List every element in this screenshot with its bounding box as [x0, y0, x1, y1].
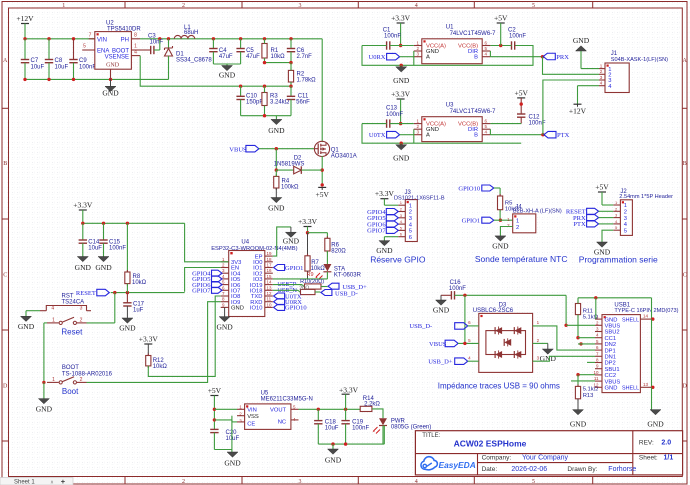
svg-text:5: 5 [83, 44, 86, 50]
svg-text:10: 10 [267, 302, 273, 307]
svg-text:0805G (Green): 0805G (Green) [391, 425, 431, 431]
svg-text:+3.3V: +3.3V [375, 189, 395, 198]
svg-text:3: 3 [409, 216, 412, 222]
svg-text:56nF: 56nF [296, 100, 310, 106]
svg-text:GND: GND [231, 306, 244, 312]
svg-text:GPIO10: GPIO10 [285, 305, 307, 312]
svg-text:GND: GND [283, 237, 300, 246]
svg-text:ME6211C33M5G-N: ME6211C33M5G-N [261, 396, 313, 402]
svg-text:VSS: VSS [247, 414, 259, 420]
svg-text:+3.3V: +3.3V [391, 90, 411, 99]
svg-text:3.24kΩ: 3.24kΩ [270, 100, 290, 106]
svg-text:ACW02 ESPHome: ACW02 ESPHome [454, 439, 527, 449]
svg-text:2.0: 2.0 [661, 440, 671, 447]
svg-text:100nF: 100nF [449, 286, 466, 292]
svg-text:A: A [3, 58, 8, 64]
svg-text:Programmation serie: Programmation serie [579, 255, 658, 265]
svg-text:SBU2: SBU2 [605, 330, 620, 336]
svg-text:R12: R12 [153, 358, 165, 364]
svg-text:Date:: Date: [482, 466, 498, 473]
svg-text:VOUT: VOUT [270, 408, 287, 414]
svg-text:USBLC6-2SC6: USBLC6-2SC6 [473, 308, 514, 314]
svg-text:VBUS: VBUS [605, 379, 621, 385]
svg-text:C8: C8 [55, 58, 63, 64]
svg-text:2: 2 [624, 210, 627, 216]
svg-text:100nF: 100nF [384, 34, 401, 40]
svg-text:PRX: PRX [556, 54, 569, 61]
svg-text:R9: R9 [307, 272, 314, 278]
svg-text:GND: GND [36, 405, 53, 414]
svg-text:1uF: 1uF [133, 308, 144, 314]
svg-text:R11: R11 [583, 308, 593, 314]
svg-text:+5V: +5V [315, 190, 329, 199]
svg-text:USB_D-: USB_D- [335, 290, 358, 297]
svg-text:GND: GND [268, 126, 285, 135]
svg-text:10: 10 [593, 370, 599, 375]
svg-text:GND: GND [325, 456, 342, 465]
svg-text:GND: GND [216, 323, 233, 332]
svg-text:10kΩ: 10kΩ [311, 266, 326, 272]
svg-text:3: 3 [299, 479, 302, 485]
svg-text:R13: R13 [583, 393, 594, 399]
svg-text:DN2: DN2 [605, 342, 617, 348]
svg-text:GND: GND [433, 306, 450, 315]
svg-text:GND: GND [95, 263, 112, 272]
svg-text:1: 1 [62, 3, 65, 9]
svg-text:2: 2 [409, 210, 412, 216]
svg-text:11: 11 [267, 297, 272, 302]
svg-text:10uF: 10uF [88, 246, 102, 252]
svg-text:CC2: CC2 [605, 373, 617, 379]
svg-text:+3.3V: +3.3V [391, 14, 411, 23]
svg-text:2: 2 [182, 3, 185, 9]
svg-text:Reset: Reset [61, 328, 83, 337]
svg-text:GND: GND [106, 63, 120, 69]
svg-text:C: C [683, 273, 687, 279]
svg-text:1/1: 1/1 [664, 454, 674, 461]
svg-text:GND: GND [492, 242, 509, 251]
svg-text:C13: C13 [386, 106, 398, 112]
svg-text:2.2kΩ: 2.2kΩ [364, 401, 380, 407]
svg-text:R10(20Ω): R10(20Ω) [300, 279, 324, 285]
svg-text:3: 3 [80, 306, 83, 312]
svg-text:+5V: +5V [494, 14, 508, 23]
svg-text:GND: GND [219, 71, 236, 80]
svg-text:A: A [683, 58, 688, 64]
svg-text:C7: C7 [31, 58, 39, 64]
svg-text:100nF: 100nF [352, 425, 369, 431]
svg-text:Boot: Boot [62, 387, 79, 396]
svg-text:100nF: 100nF [79, 65, 96, 71]
svg-text:+5V: +5V [208, 386, 222, 395]
svg-text:GND: GND [102, 89, 119, 98]
svg-text:2: 2 [182, 479, 185, 485]
svg-text:13: 13 [267, 285, 273, 290]
svg-text:10uF: 10uF [31, 65, 45, 71]
svg-text:VSENSE: VSENSE [105, 55, 129, 61]
svg-text:GND: GND [268, 204, 285, 213]
svg-text:Sonde température NTC: Sonde température NTC [475, 254, 568, 264]
svg-text:VBUS: VBUS [229, 146, 247, 153]
svg-text:47uF: 47uF [246, 54, 260, 60]
svg-text:+3.3V: +3.3V [298, 217, 318, 226]
svg-text:GND: GND [573, 36, 590, 45]
svg-text:Drawn By:: Drawn By: [567, 466, 597, 473]
svg-text:BOOT: BOOT [62, 365, 79, 371]
svg-text:B: B [683, 161, 687, 167]
svg-text:100kΩ: 100kΩ [281, 184, 299, 190]
svg-text:GND: GND [75, 263, 92, 272]
svg-text:U4: U4 [241, 240, 249, 246]
svg-text:Company:: Company: [482, 454, 512, 461]
svg-text:10uF: 10uF [325, 425, 339, 431]
svg-text:PTX: PTX [557, 132, 570, 139]
svg-text:CC1: CC1 [605, 336, 617, 342]
svg-text:IO10: IO10 [250, 306, 263, 312]
svg-text:2.7nF: 2.7nF [297, 54, 313, 60]
svg-text:+5V: +5V [514, 88, 528, 97]
svg-text:GND: GND [119, 324, 136, 333]
svg-text:6: 6 [409, 235, 412, 241]
svg-text:100nF: 100nF [386, 112, 403, 118]
svg-text:GND: GND [393, 154, 410, 163]
svg-text:KT-0603R: KT-0603R [334, 272, 362, 278]
svg-text:ESP32-C3-WROOM-02-N4(4MB): ESP32-C3-WROOM-02-N4(4MB) [211, 246, 297, 252]
svg-text:+3.3V: +3.3V [73, 201, 93, 210]
svg-text:U3: U3 [446, 103, 454, 109]
svg-text:18: 18 [267, 257, 273, 262]
svg-text:47uF: 47uF [219, 54, 233, 60]
svg-text:GND: GND [570, 419, 587, 428]
svg-text:820Ω: 820Ω [331, 249, 346, 255]
svg-text:TPS5410DR: TPS5410DR [107, 27, 141, 33]
svg-text:D: D [3, 384, 8, 390]
svg-text:USB_D-: USB_D- [409, 323, 432, 330]
svg-text:2: 2 [516, 225, 519, 231]
svg-text:NC: NC [278, 420, 286, 426]
svg-text:+: + [61, 477, 66, 485]
svg-text:RESET: RESET [76, 290, 96, 297]
svg-text:SBU1: SBU1 [605, 367, 620, 373]
svg-text:150pF: 150pF [246, 100, 263, 106]
svg-text:16: 16 [267, 268, 273, 273]
svg-text:U0TX: U0TX [369, 132, 386, 139]
svg-text:REV:: REV: [639, 440, 654, 447]
svg-text:D: D [683, 384, 688, 390]
svg-text:Impédance traces USB = 90 ohms: Impédance traces USB = 90 ohms [438, 381, 560, 390]
svg-text:GND: GND [18, 322, 35, 331]
svg-text:U0RX: U0RX [369, 54, 386, 61]
svg-text:Sheet:: Sheet: [639, 454, 658, 461]
svg-text:Your Company: Your Company [522, 454, 569, 461]
svg-text:TITLE:: TITLE: [422, 433, 440, 439]
svg-text:2026-02-06: 2026-02-06 [511, 466, 547, 473]
svg-text:AO3401A: AO3401A [331, 154, 357, 160]
svg-text:GND: GND [605, 317, 618, 323]
svg-text:+5V: +5V [595, 183, 609, 192]
svg-text:S04B-XASK-1(LF)(SN): S04B-XASK-1(LF)(SN) [611, 57, 668, 63]
svg-text:14: 14 [643, 314, 649, 319]
svg-text:DP1: DP1 [605, 348, 616, 354]
svg-text:14: 14 [267, 280, 273, 285]
svg-text:GPIO10: GPIO10 [458, 185, 480, 192]
svg-text:3: 3 [299, 3, 302, 9]
svg-text:CE: CE [247, 421, 255, 427]
svg-text:VIN: VIN [97, 37, 107, 43]
svg-text:C2: C2 [508, 28, 516, 34]
svg-text:+12V: +12V [569, 107, 587, 116]
svg-text:VBUS: VBUS [429, 341, 447, 348]
svg-text:R8: R8 [133, 274, 141, 280]
svg-text:GND: GND [647, 419, 664, 428]
svg-text:1: 1 [516, 218, 519, 224]
svg-text:C3: C3 [148, 33, 156, 39]
svg-text:+3.3V: +3.3V [139, 335, 159, 344]
svg-text:4: 4 [51, 306, 54, 312]
svg-text:GND: GND [224, 459, 241, 468]
svg-text:15: 15 [267, 274, 273, 279]
svg-text:RST: RST [62, 293, 74, 299]
svg-text:5: 5 [532, 479, 535, 485]
svg-text:SS34_C8678: SS34_C8678 [176, 58, 212, 64]
svg-text:EasyEDA: EasyEDA [439, 460, 476, 470]
svg-text:PH: PH [121, 37, 129, 43]
svg-text:Q1: Q1 [331, 147, 340, 153]
svg-text:10kΩ: 10kΩ [132, 280, 147, 286]
svg-text:100nF: 100nF [509, 34, 526, 40]
svg-text:DN1: DN1 [605, 355, 617, 361]
svg-text:5: 5 [624, 228, 627, 234]
svg-text:4: 4 [134, 50, 137, 56]
svg-text:1: 1 [624, 203, 627, 209]
svg-text:13: 13 [643, 382, 649, 387]
svg-text:5: 5 [532, 3, 535, 9]
svg-text:∧: ∧ [50, 480, 54, 485]
svg-text:GPIO1: GPIO1 [462, 218, 480, 225]
svg-text:A: A [426, 55, 430, 61]
svg-text:TS-1088-AR02016: TS-1088-AR02016 [62, 371, 113, 377]
svg-text:19: 19 [267, 251, 273, 256]
svg-text:10uF: 10uF [55, 65, 69, 71]
svg-text:GPIO7: GPIO7 [367, 228, 386, 235]
svg-text:U1: U1 [446, 25, 454, 31]
svg-text:Forhorse: Forhorse [608, 466, 636, 473]
svg-text:Sheet 1: Sheet 1 [14, 479, 35, 485]
svg-text:GPIO1: GPIO1 [285, 265, 303, 272]
svg-text:2.54mm 1*5P Header: 2.54mm 1*5P Header [619, 194, 673, 200]
svg-text:B: B [474, 55, 478, 61]
svg-text:5: 5 [409, 229, 412, 235]
svg-text:12: 12 [267, 291, 273, 296]
svg-text:10nF: 10nF [150, 40, 164, 46]
svg-text:+12V: +12V [16, 14, 34, 23]
svg-text:10kΩ: 10kΩ [271, 54, 286, 60]
svg-text:4: 4 [415, 3, 418, 9]
svg-text:1.78kΩ: 1.78kΩ [297, 78, 317, 84]
svg-text:Réserve GPIO: Réserve GPIO [370, 255, 426, 265]
svg-text:74LVC1T45W6-7: 74LVC1T45W6-7 [450, 31, 497, 37]
svg-text:B2B-XH-A (LF)(SN): B2B-XH-A (LF)(SN) [513, 208, 562, 214]
svg-text:VIN: VIN [247, 408, 257, 414]
svg-text:74LVC1T45W6-7: 74LVC1T45W6-7 [450, 109, 497, 115]
svg-text:B: B [3, 161, 7, 167]
svg-text:PTX: PTX [573, 221, 586, 228]
svg-text:GND: GND [605, 386, 618, 392]
svg-text:USB_D+: USB_D+ [428, 359, 453, 366]
svg-text:DP2: DP2 [605, 361, 616, 367]
svg-text:C9: C9 [79, 58, 87, 64]
svg-text:B: B [474, 133, 478, 139]
svg-text:68uH: 68uH [184, 30, 198, 36]
svg-text:SHELL: SHELL [622, 317, 639, 323]
svg-text:3: 3 [624, 216, 627, 222]
svg-text:1: 1 [409, 203, 412, 209]
svg-text:GPIO7: GPIO7 [192, 288, 211, 295]
svg-text:10uF: 10uF [226, 436, 240, 442]
svg-text:A: A [426, 133, 430, 139]
svg-text:+3.3V: +3.3V [339, 385, 359, 394]
svg-text:GND: GND [393, 76, 410, 85]
svg-text:100nF: 100nF [109, 246, 126, 252]
svg-text:C: C [3, 273, 7, 279]
svg-text:10kΩ: 10kΩ [153, 364, 168, 370]
svg-text:17: 17 [267, 263, 273, 268]
svg-text:1N5819WS: 1N5819WS [274, 162, 305, 168]
svg-text:20Ω: 20Ω [299, 286, 309, 292]
svg-text:VBUS: VBUS [605, 324, 621, 330]
svg-text:C1: C1 [383, 28, 391, 34]
svg-text:7: 7 [89, 33, 92, 39]
svg-text:SHELL: SHELL [622, 386, 639, 392]
svg-text:4: 4 [415, 479, 418, 485]
svg-text:8: 8 [134, 33, 137, 39]
svg-text:5.1kΩ: 5.1kΩ [583, 386, 599, 392]
